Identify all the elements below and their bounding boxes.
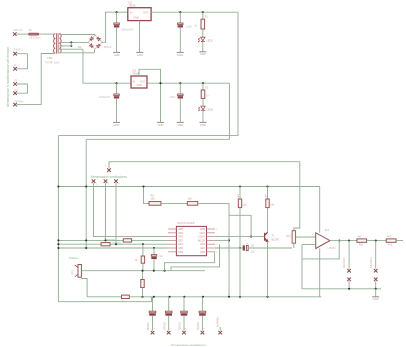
wire R14 bottom down to cap line bbox=[293, 243, 295, 248]
svg-text:SENS2: SENS2 bbox=[163, 321, 166, 330]
svg-text:IC3 PIC12F6: IC3 PIC12F6 bbox=[177, 221, 195, 225]
wire R11 to edge bbox=[396, 240, 403, 242]
wire LED1 to ground bbox=[202, 42, 204, 52]
svg-text:GND: GND bbox=[158, 123, 164, 127]
capacitor C9 bottom row bbox=[201, 297, 203, 311]
resistor R14 bbox=[292, 231, 296, 244]
wire X6 riser to transformer primary bottom bbox=[17, 54, 53, 105]
wire X10 down bbox=[115, 183, 117, 244]
resistor R6 bbox=[122, 295, 130, 298]
wire bundle line y248.0 bbox=[58, 247, 168, 249]
svg-text:CLKI: CLKI bbox=[199, 232, 205, 235]
wire secondary pin1 to bridge top bbox=[59, 34, 95, 36]
connector X10 bbox=[114, 179, 118, 183]
wire IC1 GND to ground bbox=[139, 21, 141, 53]
wire R8 down to cap line bbox=[239, 208, 241, 248]
svg-text:VSS: VSS bbox=[178, 251, 183, 254]
connector X13 bbox=[182, 331, 186, 335]
svg-text:IN: IN bbox=[130, 11, 133, 14]
svg-text:GND: GND bbox=[200, 123, 206, 127]
ground under C2 bbox=[177, 51, 184, 53]
wire MCU pin to T1 base bbox=[215, 236, 264, 238]
svg-text:GND: GND bbox=[177, 53, 183, 57]
wire X17 to rail y288.3 bbox=[348, 281, 350, 289]
junction R1 bbox=[202, 11, 204, 13]
svg-text:Termostato: Termostato bbox=[104, 238, 116, 241]
connector X11 bbox=[151, 331, 155, 335]
junction C3 bbox=[115, 82, 117, 84]
svg-text:Telefono: Telefono bbox=[69, 256, 79, 260]
capacitor C6 bottom row bbox=[152, 297, 154, 311]
wire opamp V- down to bottom rail bbox=[319, 249, 321, 297]
svg-text:GND: GND bbox=[134, 17, 140, 20]
svg-text:4k7: 4k7 bbox=[387, 236, 392, 239]
LED LED2 bbox=[201, 106, 205, 110]
LED LED1 bbox=[201, 37, 205, 41]
svg-text:Temperatura ventiladores: Temperatura ventiladores bbox=[171, 343, 206, 347]
wire R14 to opamp +input bbox=[294, 236, 316, 238]
connector X8 bbox=[92, 179, 96, 183]
svg-text:R10: R10 bbox=[359, 244, 364, 246]
svg-text:VDD: VDD bbox=[200, 228, 205, 231]
wire secondary pin4 to 0V riser bbox=[59, 48, 83, 50]
svg-text:SALIDA 1: SALIDA 1 bbox=[343, 257, 346, 268]
wire R2 to LED2 bbox=[202, 98, 204, 106]
junction C2 bbox=[179, 11, 181, 13]
svg-text:SENS1: SENS1 bbox=[147, 321, 150, 330]
wire output tap down to X16 pair bbox=[348, 241, 350, 269]
wire R1 to LED1 bbox=[202, 29, 204, 37]
connector X16 bbox=[347, 269, 351, 273]
wire IC1 OUT rail to right frame bbox=[151, 11, 238, 13]
wire R10 to R11 bbox=[367, 240, 387, 242]
wire bottom rail y296.8 right part bbox=[129, 296, 321, 298]
wire speaker rail y270.7 bbox=[81, 270, 205, 272]
wire column x240 from line4 bbox=[239, 185, 241, 187]
svg-text:GP0: GP0 bbox=[178, 247, 183, 250]
svg-text:GND: GND bbox=[114, 123, 120, 127]
wire LED2 to ground bbox=[202, 111, 204, 122]
connector X7 bbox=[107, 168, 111, 172]
resistor R5 column bbox=[142, 244, 144, 256]
wire T1 emitter to bottom rail bbox=[267, 241, 269, 297]
svg-text:B250C: B250C bbox=[104, 45, 112, 49]
svg-text:CLKO: CLKO bbox=[198, 236, 205, 239]
wire opamp V+ from line4 bbox=[319, 187, 321, 233]
svg-text:SALIDA 2: SALIDA 2 bbox=[370, 257, 373, 268]
connector X19 bbox=[374, 278, 378, 282]
ground right section bbox=[372, 296, 379, 298]
svg-text:GND: GND bbox=[114, 53, 120, 57]
bridge rectifier B1 bbox=[88, 35, 102, 49]
svg-text:LED1: LED1 bbox=[206, 38, 213, 42]
svg-text:AN0: AN0 bbox=[200, 251, 205, 254]
capacitor C3 bbox=[116, 83, 118, 94]
wire X9 down bbox=[105, 183, 107, 240]
svg-text:GND: GND bbox=[200, 52, 206, 56]
wire MCU pin to column x229 bbox=[215, 239, 229, 241]
svg-text:SENS4: SENS4 bbox=[197, 321, 200, 330]
svg-text:100n: 100n bbox=[186, 25, 192, 29]
svg-text:B1: B1 bbox=[78, 45, 82, 49]
connector X14 bbox=[201, 331, 205, 335]
wire opamp feedback loop bbox=[338, 240, 340, 242]
transformer TR1 bbox=[54, 34, 56, 54]
wire -5V frame right side down bbox=[86, 83, 229, 139]
wire column x267 from line4 bbox=[266, 185, 268, 187]
wire R9 to transistor collector bbox=[267, 208, 269, 233]
resistor R2 bbox=[202, 83, 204, 90]
wire X19 to rail y288.3 bbox=[375, 281, 377, 289]
wire X2 bracket bbox=[17, 54, 28, 69]
capacitor C10 (series, horizontal) bbox=[243, 245, 245, 250]
svg-text:N: N bbox=[14, 63, 16, 67]
svg-text:ALARMA: ALARMA bbox=[217, 317, 220, 327]
capacitor C2 bbox=[179, 12, 181, 23]
svg-text:N 2: N 2 bbox=[14, 88, 19, 92]
wire +5V frame bottom bbox=[58, 297, 151, 302]
wire R3 to R4 bbox=[161, 202, 187, 204]
svg-text:SP1: SP1 bbox=[72, 269, 75, 274]
svg-text:OUT: OUT bbox=[143, 11, 149, 14]
connector X17 bbox=[347, 278, 351, 282]
wire +rail to IC1 IN bbox=[117, 11, 128, 13]
svg-text:R14: R14 bbox=[287, 236, 292, 238]
wire line4 rail bbox=[58, 186, 319, 188]
svg-text:AN3: AN3 bbox=[200, 243, 205, 246]
wire rail to ground symbol bbox=[375, 289, 377, 297]
capacitor C1 bbox=[116, 12, 118, 23]
wire feedback vertical to -in and down to rail bbox=[301, 245, 303, 289]
wire opamp output rail bbox=[330, 240, 357, 242]
capacitor C8 bottom row bbox=[183, 297, 185, 311]
svg-text:GP2: GP2 bbox=[178, 239, 183, 242]
junction secondary CT bbox=[70, 41, 72, 43]
svg-text:AN1: AN1 bbox=[200, 247, 205, 250]
wire secondary pin5 to bridge bottom bbox=[59, 52, 94, 54]
wire R4 to column x229 bbox=[198, 203, 229, 296]
ground under C1 bbox=[113, 51, 120, 53]
connector X15 bbox=[219, 327, 221, 331]
wire bundle line y244.2 bbox=[58, 243, 168, 245]
wire C10 to film cap bottom line bbox=[248, 247, 292, 249]
svg-text:100n: 100n bbox=[170, 95, 176, 99]
junction C1 bbox=[116, 11, 118, 13]
svg-text:GP1: GP1 bbox=[178, 243, 183, 246]
junction R2 bbox=[202, 82, 204, 84]
wire MCU audio pin to C10 bbox=[215, 247, 243, 249]
wire secondary pin2 center tap bbox=[59, 41, 88, 43]
wire -5V frame left vertical bbox=[85, 139, 87, 249]
svg-text:IC4: IC4 bbox=[325, 228, 330, 232]
svg-text:78L05: 78L05 bbox=[128, 3, 136, 7]
ground under LED1 bbox=[199, 51, 206, 53]
svg-text:GND: GND bbox=[136, 85, 141, 87]
svg-text:TRASF 2x6V: TRASF 2x6V bbox=[45, 61, 60, 65]
wire sensor line3 from X7 bbox=[109, 162, 300, 169]
resistor R7 column bbox=[142, 271, 144, 280]
wire bridge + output riser to +rail bbox=[102, 12, 117, 42]
svg-text:GP4: GP4 bbox=[178, 232, 183, 235]
wire MCU pin row7 L-path bbox=[165, 252, 215, 271]
svg-text:1000u/25V: 1000u/25V bbox=[121, 28, 134, 32]
svg-text:GND: GND bbox=[373, 297, 379, 301]
wire X4 bracket bbox=[17, 84, 28, 93]
junction IC2 gnd route bbox=[159, 82, 161, 84]
svg-text:IN: IN bbox=[133, 81, 136, 83]
svg-text:GND: GND bbox=[177, 123, 183, 127]
wire rail y288.8 bbox=[302, 288, 381, 290]
svg-text:Alimentacion y trasformacion d: Alimentacion y trasformacion de tension bbox=[6, 47, 10, 107]
ground under IC2 route bbox=[157, 121, 164, 123]
svg-text:4k7: 4k7 bbox=[358, 236, 363, 239]
svg-text:TIERRA: TIERRA bbox=[14, 99, 24, 103]
junction column x229 MCU pin bbox=[228, 239, 230, 241]
svg-text:GND: GND bbox=[137, 53, 143, 57]
wire MCU pin row6 L-path bbox=[171, 244, 220, 271]
svg-text:10u: 10u bbox=[159, 255, 164, 258]
ground under LED2 bbox=[200, 121, 207, 123]
MCU right pin stubs bbox=[207, 228, 216, 230]
resistor R1 bbox=[202, 12, 204, 19]
junction line4 at left frame bbox=[57, 185, 59, 187]
wire +5V frame left side down bbox=[57, 136, 59, 302]
svg-text:SENS3: SENS3 bbox=[179, 321, 182, 330]
ground under IC1 bbox=[136, 51, 143, 53]
wire secondary pin3 bbox=[59, 45, 71, 47]
wire line4 tap down to R3 bbox=[144, 187, 150, 204]
capacitor C7 bottom row bbox=[168, 297, 170, 311]
svg-text:GP5: GP5 bbox=[178, 228, 183, 231]
connector X18 bbox=[374, 269, 378, 273]
wire line3 riser to R14 bbox=[294, 162, 300, 231]
wire +5V frame right side down bbox=[58, 12, 238, 135]
svg-text:230V AC: 230V AC bbox=[13, 29, 23, 32]
wire speaker bottom pin jog bbox=[81, 279, 87, 297]
capacitor C5 bbox=[153, 248, 155, 255]
svg-text:TR1: TR1 bbox=[47, 56, 53, 60]
svg-text:MCLR: MCLR bbox=[198, 239, 205, 242]
wire X8 down to MCU line bbox=[94, 183, 169, 236]
svg-text:GP3: GP3 bbox=[178, 236, 183, 239]
svg-text:BC547: BC547 bbox=[272, 239, 280, 242]
wire aux branch to T1 base bbox=[229, 215, 251, 236]
junction line4 inner frame bbox=[85, 185, 87, 187]
MCU left pin stubs bbox=[168, 228, 176, 230]
svg-text:FASE 1: FASE 1 bbox=[14, 48, 23, 52]
wire column x240 to bottom rail bbox=[239, 248, 241, 297]
wire bundle line y240.4 bbox=[58, 239, 168, 241]
wire F1 to transformer primary top bbox=[39, 33, 53, 35]
capacitor C4 bbox=[179, 83, 181, 94]
transistor T1 BC547 bbox=[265, 232, 268, 241]
wire IC2 OUT rail right bbox=[147, 82, 229, 84]
svg-text:LM386: LM386 bbox=[327, 246, 336, 250]
junction C4 bbox=[179, 82, 181, 84]
svg-text:SB 250mA: SB 250mA bbox=[29, 36, 41, 39]
ground under C4 bbox=[177, 121, 184, 123]
svg-text:LED2: LED2 bbox=[207, 107, 214, 111]
wire IC2 GND route to ground bbox=[139, 69, 161, 122]
connector X12 bbox=[167, 331, 171, 335]
connector X9 bbox=[104, 179, 108, 183]
wire bottom rail y296.8 bbox=[87, 296, 121, 298]
wire second tap down to X18 pair bbox=[375, 241, 377, 269]
ground under C3 bbox=[113, 121, 120, 123]
resistor R13 inline bbox=[101, 243, 110, 246]
svg-text:Alimentacion ventiladores: Alimentacion ventiladores bbox=[91, 175, 128, 179]
svg-text:OUT: OUT bbox=[140, 81, 145, 83]
wire 0V riser to negative rail bbox=[83, 49, 131, 83]
svg-text:1000u/25: 1000u/25 bbox=[99, 95, 110, 99]
svg-text:Ventilador: Ventilador bbox=[112, 242, 122, 245]
wire X1 to fuse F1 bbox=[17, 33, 29, 35]
